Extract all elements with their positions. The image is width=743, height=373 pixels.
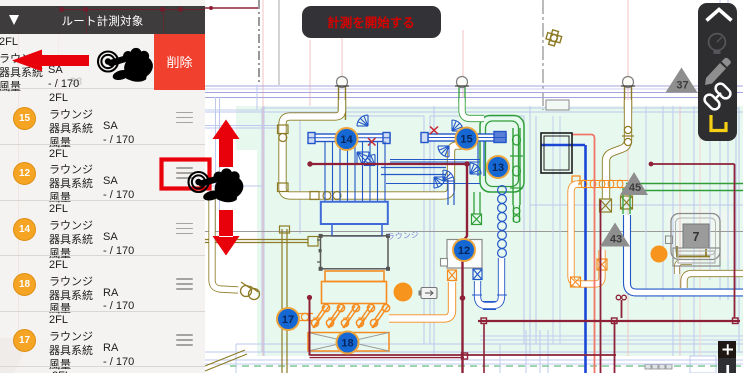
olive center duct xyxy=(606,100,628,199)
grid pink verticals xyxy=(263,0,680,356)
olive flower symbol xyxy=(546,30,562,46)
badge 12 xyxy=(453,239,475,261)
orange dot 2 xyxy=(651,246,668,263)
red arrow down xyxy=(213,210,240,256)
blue duct right elbow bottom xyxy=(627,215,743,293)
red arrow up xyxy=(213,120,240,168)
ahu unit box xyxy=(317,236,388,269)
maroon valve vertical xyxy=(621,300,623,318)
blue thin line mid xyxy=(386,183,480,185)
equipment room 7 xyxy=(666,214,721,260)
toolbar chevron up icon xyxy=(707,10,732,21)
maroon right vertical xyxy=(734,164,736,318)
green duct top elbow xyxy=(462,98,484,119)
extra wall lines xyxy=(204,106,743,373)
orange vertical duct xyxy=(389,282,452,319)
bottom small gray boxes xyxy=(645,365,672,370)
blue riser box 12 xyxy=(473,269,482,280)
orange bottom box with X xyxy=(308,333,389,352)
orange manifold branches xyxy=(311,304,389,328)
blue diffuser bar B xyxy=(421,132,506,143)
olive tall vertical xyxy=(281,229,283,373)
olive riser dome A xyxy=(335,77,349,121)
maroon bottom horizontal y355 xyxy=(310,354,617,356)
badge 18 xyxy=(337,332,359,354)
olive bottom diagonal pipe xyxy=(205,350,247,371)
green duct right horizontal xyxy=(626,183,743,185)
blue flex chain from 13 xyxy=(498,186,507,258)
maroon bottom pipe left xyxy=(309,299,311,356)
toolbar pencil icon xyxy=(705,58,731,85)
blue fan elbow bar B down2 xyxy=(438,146,449,157)
badge 13 xyxy=(487,156,509,178)
badge 14 xyxy=(336,128,358,150)
blue duct U bottom xyxy=(478,258,502,306)
small gray box above xyxy=(546,100,569,110)
green duct riser loop 13 xyxy=(480,116,524,193)
orange small box right xyxy=(597,259,607,270)
olive top right elbow xyxy=(684,274,743,289)
maroon bottom horizontal y321 xyxy=(478,320,740,322)
gray square badge 7 xyxy=(683,224,709,248)
blue fan elbow below bar A2 xyxy=(364,155,375,166)
blue fan elbow bar B down1 xyxy=(452,120,463,131)
camera icon xyxy=(419,288,438,299)
green duct below ring xyxy=(473,192,475,214)
badge 15 xyxy=(456,128,478,150)
blue fan elbow b13 xyxy=(470,163,481,174)
equipment box at 12 xyxy=(441,240,483,269)
blue duct horizontal mid xyxy=(381,167,446,169)
black equipment box xyxy=(541,133,572,173)
badge 17 xyxy=(277,308,299,330)
measure start button xyxy=(302,6,441,38)
maroon vertical pipe center xyxy=(463,165,468,373)
tap hand icon top xyxy=(98,48,155,82)
maroon bottom vertical x614 xyxy=(614,321,616,373)
light blue wall lines xyxy=(204,0,743,373)
salmon pipe xyxy=(572,135,595,373)
blue vertical below bar B xyxy=(477,141,479,176)
tap hand icon bottom xyxy=(189,168,246,202)
orange right elbow down xyxy=(571,184,602,284)
left panel xyxy=(0,0,205,373)
blue fan elbow at duct left xyxy=(443,170,454,181)
blue verticals flex xyxy=(325,142,385,203)
long section line xyxy=(204,231,743,233)
top wall periwinkle lines xyxy=(205,86,743,98)
triangle 37 xyxy=(666,68,698,93)
bottom green dashed line xyxy=(230,365,743,367)
panel header bar xyxy=(0,6,205,34)
delete button xyxy=(154,34,205,90)
blue diffuser bar A xyxy=(308,133,390,144)
red x mark xyxy=(430,127,438,135)
red highlight rectangle xyxy=(162,160,210,189)
right toolbar xyxy=(698,3,737,141)
zoom plus button xyxy=(718,341,737,373)
orange dot 1 xyxy=(394,283,413,302)
olive center flanges xyxy=(600,196,633,212)
grid gray vertical xyxy=(542,0,544,110)
blue plenum box xyxy=(321,202,388,236)
orange flex duct right xyxy=(572,176,628,188)
green duct right vertical xyxy=(622,187,624,214)
orange rect upper xyxy=(325,271,384,282)
riser dome B green xyxy=(455,77,469,103)
blue thick horizontal xyxy=(541,144,585,147)
olive stub duct left xyxy=(204,237,318,247)
olive center damper ovals xyxy=(622,126,634,145)
toolbar gauge icon xyxy=(709,34,726,54)
blue fan elbow above bar A xyxy=(357,115,368,126)
green floor region xyxy=(257,106,743,356)
triangle 45 xyxy=(620,172,648,195)
list rows content xyxy=(0,34,205,90)
maroon top line in header area xyxy=(205,7,258,9)
red swipe-left arrow xyxy=(12,50,89,72)
list rows xyxy=(0,0,743,1)
blue fan elbow below bar A1 xyxy=(357,152,369,164)
pink vline extension xyxy=(627,80,629,356)
triangle 43 xyxy=(600,223,630,247)
olive duct left loop xyxy=(283,100,465,196)
blue thick vertical xyxy=(584,145,587,373)
maroon short right line xyxy=(651,163,735,165)
olive loop corner boxes xyxy=(278,125,342,200)
maroon horizontal pipe xyxy=(310,163,467,165)
maroon vertical right2 xyxy=(600,200,602,373)
orange manifold left tail xyxy=(297,313,313,320)
top right equipment box xyxy=(673,248,720,266)
toolbar link icon xyxy=(703,82,733,112)
olive riser dome C xyxy=(621,77,635,111)
green duct vertical with dampers xyxy=(512,128,514,205)
room fill around equipment 7 xyxy=(668,209,734,261)
olive bottom-left pipe xyxy=(212,197,238,290)
orange rect lower xyxy=(322,282,387,304)
grid section centerline xyxy=(258,0,260,85)
toolbar route icon xyxy=(711,115,726,131)
